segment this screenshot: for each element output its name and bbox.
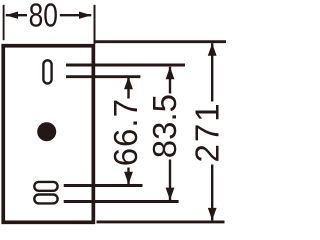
80 dim right extension line <box>94 5 96 44</box>
83.5 bottom arrowhead <box>166 188 175 201</box>
text mask 83.5 <box>151 94 179 160</box>
upper keyhole slot <box>43 60 51 83</box>
svg-text:80: 80 <box>29 0 58 34</box>
lower slot 2 <box>34 195 57 204</box>
leader line from lower slot 2 <box>64 200 179 203</box>
271 dimension line <box>211 43 213 220</box>
wiring knockout circle <box>37 122 56 141</box>
svg-text:66.7: 66.7 <box>107 98 144 166</box>
lower slot 1 <box>34 182 57 191</box>
271 bottom reference line <box>97 220 225 223</box>
80 dim left extension line <box>3 5 5 40</box>
leader line from lower slot 1 <box>64 184 143 187</box>
66.7 bottom arrowhead <box>124 172 133 185</box>
80 dimension line <box>6 14 92 16</box>
text mask 80 <box>27 2 60 28</box>
66.7 dimension line <box>127 77 129 184</box>
leader line from upper slot bottom <box>66 75 140 78</box>
271 bottom arrowhead <box>208 208 217 221</box>
svg-text:83.5: 83.5 <box>146 94 183 158</box>
80 dim left arrowhead <box>6 12 19 19</box>
83.5 dimension line <box>169 67 171 200</box>
271 top reference line <box>95 40 226 43</box>
271 top arrowhead <box>208 43 217 56</box>
svg-text:271: 271 <box>188 101 225 162</box>
leader line from upper slot top <box>66 64 185 67</box>
fixture body outline <box>3 46 93 223</box>
66.7 top arrowhead <box>124 77 133 90</box>
text mask 66.7 <box>111 99 140 168</box>
text mask 271 <box>193 102 222 165</box>
83.5 top arrowhead <box>166 67 175 80</box>
80 dim right arrowhead <box>79 12 92 19</box>
